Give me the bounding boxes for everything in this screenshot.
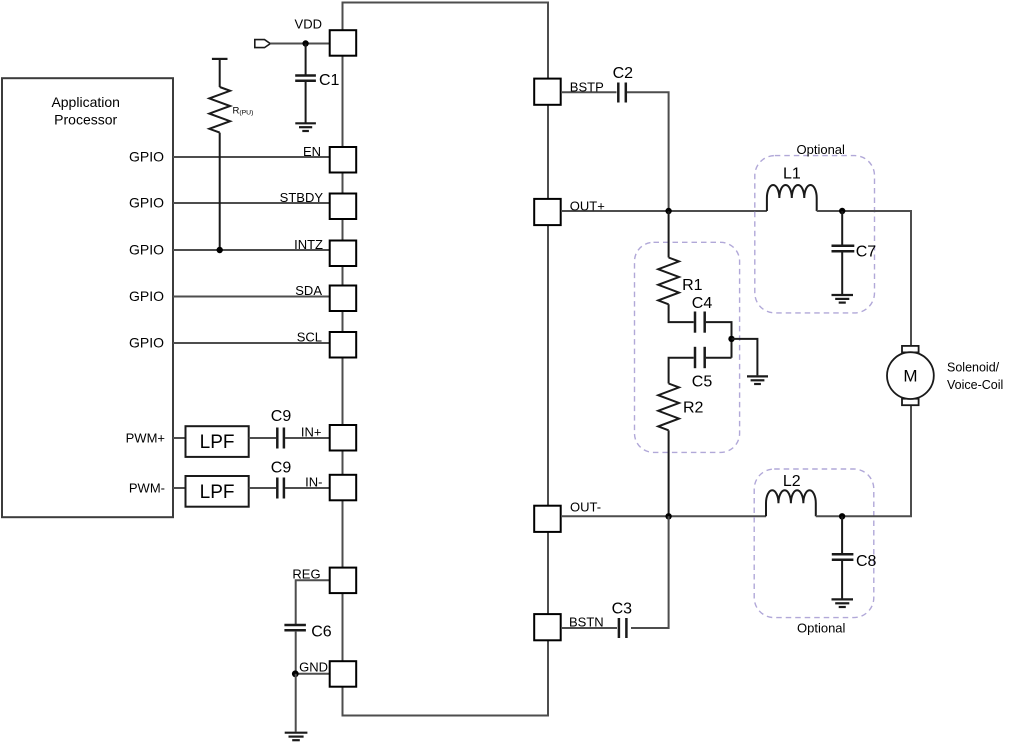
wire C4 to center node — [706, 322, 732, 358]
svg-text:STBDY: STBDY — [280, 190, 324, 205]
dashed optional box (R1/C4/C5/R2) — [635, 242, 740, 452]
svg-text:GPIO: GPIO — [129, 288, 164, 304]
pin STBDY — [280, 190, 357, 219]
label PWM- — [129, 481, 165, 496]
capacitor C1 — [295, 72, 339, 89]
svg-text:Voice-Coil: Voice-Coil — [947, 378, 1003, 392]
node C4/C5 junction — [728, 336, 734, 342]
svg-text:C7: C7 — [856, 243, 877, 260]
svg-text:R2: R2 — [683, 400, 704, 417]
pin OUT- — [534, 500, 601, 532]
svg-text:OUT-: OUT- — [570, 500, 601, 515]
pin VDD — [295, 17, 357, 56]
svg-text:EN: EN — [303, 144, 321, 159]
wire LPF to C9 (bottom) — [249, 487, 276, 489]
svg-text:LPF: LPF — [200, 482, 235, 503]
application processor box — [2, 78, 173, 517]
pin REG — [292, 567, 356, 594]
svg-text:L2: L2 — [783, 473, 801, 490]
svg-text:Processor: Processor — [54, 112, 117, 128]
wire junction to C7 — [841, 211, 843, 245]
pin IN- — [305, 475, 356, 501]
wire C5 to R2 — [669, 358, 694, 384]
capacitor C6 — [284, 623, 331, 640]
wire GPIO to EN — [173, 156, 330, 158]
svg-text:BSTP: BSTP — [570, 80, 604, 95]
motor M solenoid — [887, 346, 934, 405]
wire GND junction to ground — [295, 674, 297, 732]
capacitor C5 — [692, 347, 713, 391]
label GPIO (SCL row) — [129, 335, 164, 351]
svg-text:C9: C9 — [271, 408, 292, 425]
wire junction to ground — [732, 339, 758, 376]
pin SCL — [297, 330, 356, 358]
wire VDD tag to VDD pin — [270, 43, 330, 45]
pin OUT+ — [534, 199, 605, 226]
svg-text:GPIO: GPIO — [129, 335, 164, 351]
label GPIO (EN row) — [129, 149, 164, 165]
wire L1 to motor branch — [817, 211, 911, 346]
svg-text:GPIO: GPIO — [129, 242, 164, 258]
inductor L2 — [766, 473, 816, 516]
wire GPIO to SDA — [173, 296, 330, 298]
pin GND — [299, 660, 356, 687]
node R(PU)/INTZ junction — [217, 247, 223, 253]
label GPIO (STBDY row) — [129, 195, 164, 211]
capacitor C4 — [692, 295, 713, 333]
svg-text:GPIO: GPIO — [129, 149, 164, 165]
wire C5 right plate to node — [706, 357, 732, 359]
resistor R1 — [658, 258, 702, 305]
wire REG to C6 — [296, 580, 330, 624]
wire C6 to GND junction — [295, 631, 297, 674]
svg-text:C8: C8 — [856, 553, 877, 570]
svg-text:LPF: LPF — [200, 432, 235, 453]
svg-text:PWM+: PWM+ — [126, 431, 165, 446]
resistor R2 — [658, 384, 703, 431]
wire C2 to OUT+ node — [627, 92, 669, 211]
pin IN+ — [301, 425, 356, 451]
node OUT- junction — [665, 513, 671, 519]
svg-text:R1: R1 — [682, 277, 703, 294]
svg-text:C4: C4 — [692, 295, 713, 312]
label PWM+ — [126, 431, 165, 446]
wire PWM- to LPF — [173, 487, 186, 489]
ground (C8) — [832, 599, 854, 607]
svg-text:C3: C3 — [612, 601, 633, 618]
pin INTZ — [294, 237, 356, 266]
svg-text:SCL: SCL — [297, 330, 322, 345]
resistor R(PU) — [209, 87, 253, 133]
wire OUT- node to C3 — [631, 516, 669, 628]
svg-text:IN+: IN+ — [301, 425, 322, 440]
node L2/C8 junction — [839, 513, 845, 519]
svg-text:INTZ: INTZ — [294, 237, 323, 252]
ground (C4/C5 node) — [747, 376, 768, 384]
svg-text:BSTN: BSTN — [569, 615, 604, 630]
wire GPIO to SCL — [173, 342, 330, 344]
pin SDA — [295, 283, 356, 311]
svg-text:M: M — [903, 367, 917, 386]
IC body U1 — [343, 3, 549, 716]
ground (C7) — [832, 295, 854, 303]
ground (GND) — [285, 733, 308, 741]
pin BSTN — [534, 614, 603, 640]
wire L2 to motor branch — [816, 405, 911, 516]
wire R1 to C4 — [669, 304, 694, 322]
wire OUT+ to L1 — [562, 210, 767, 212]
label GPIO (INTZ row) — [129, 242, 164, 258]
svg-text:OUT+: OUT+ — [570, 199, 605, 214]
capacitor C2 — [613, 65, 634, 103]
wire BSTP to C2 — [562, 91, 617, 93]
wire OUT- to L2 — [562, 515, 766, 517]
svg-text:GND: GND — [299, 660, 328, 675]
svg-text:C2: C2 — [613, 65, 634, 82]
ground (C1) — [295, 123, 316, 131]
wire PWM+ to LPF — [173, 437, 186, 439]
dashed optional box (L1/C7) — [755, 142, 875, 313]
LPF block (bottom) — [186, 476, 249, 507]
svg-text:Optional: Optional — [797, 142, 846, 157]
pin BSTP — [534, 79, 604, 105]
svg-text:PWM-: PWM- — [129, 481, 165, 496]
label Solenoid/Voice-Coil — [947, 361, 1003, 393]
capacitor C3 — [612, 601, 633, 639]
node OUT+ junction — [665, 208, 671, 214]
inductor L1 — [767, 165, 817, 211]
node VDD junction — [302, 40, 308, 46]
dashed optional box (L2/C8) — [754, 469, 874, 636]
capacitor C9 (bottom) — [271, 460, 292, 499]
svg-text:Optional: Optional — [797, 621, 846, 636]
wire OUT+ node to R1 — [668, 211, 670, 258]
svg-text:SDA: SDA — [295, 283, 322, 298]
svg-text:VDD: VDD — [295, 17, 322, 32]
label GPIO (SDA row) — [129, 288, 164, 304]
svg-text:Solenoid/: Solenoid/ — [947, 361, 1000, 375]
node GND junction — [292, 670, 299, 677]
wire junction to C8 — [841, 516, 843, 553]
wire GPIO to INTZ — [173, 249, 330, 251]
wire GND pin to junction — [295, 673, 330, 675]
resistor R(PU) top stub — [212, 59, 228, 87]
wire C1 to ground — [305, 82, 307, 123]
wire R(PU) to INTZ line — [219, 133, 221, 250]
capacitor C7 — [832, 243, 877, 260]
svg-text:R(PU): R(PU) — [233, 106, 254, 117]
wire VDD junction to C1 — [305, 44, 307, 75]
wire C7 to ground — [841, 252, 843, 294]
svg-text:C9: C9 — [271, 460, 292, 477]
wire BSTN to C3 — [562, 627, 617, 629]
LPF block (top) — [186, 426, 249, 457]
wire GPIO to STBDY — [173, 202, 330, 204]
wire C8 to ground — [841, 561, 843, 599]
svg-text:Application: Application — [51, 94, 120, 110]
svg-text:C6: C6 — [311, 623, 332, 640]
svg-text:REG: REG — [292, 567, 320, 582]
svg-text:L1: L1 — [783, 165, 801, 182]
wire C9 to IN- — [285, 487, 330, 489]
svg-text:GPIO: GPIO — [129, 195, 164, 211]
wire R2 to OUT- node — [668, 430, 670, 516]
svg-text:C1: C1 — [319, 72, 340, 89]
svg-text:C5: C5 — [692, 373, 713, 390]
capacitor C9 (top) — [271, 408, 292, 449]
capacitor C8 — [832, 553, 877, 570]
wire LPF to C9 (top) — [249, 437, 276, 439]
pin EN — [303, 144, 356, 173]
node L1/C7 junction — [839, 208, 845, 214]
wire C9 to IN+ — [285, 437, 330, 439]
svg-text:IN-: IN- — [305, 475, 322, 490]
VDD input tag connector — [255, 40, 270, 48]
